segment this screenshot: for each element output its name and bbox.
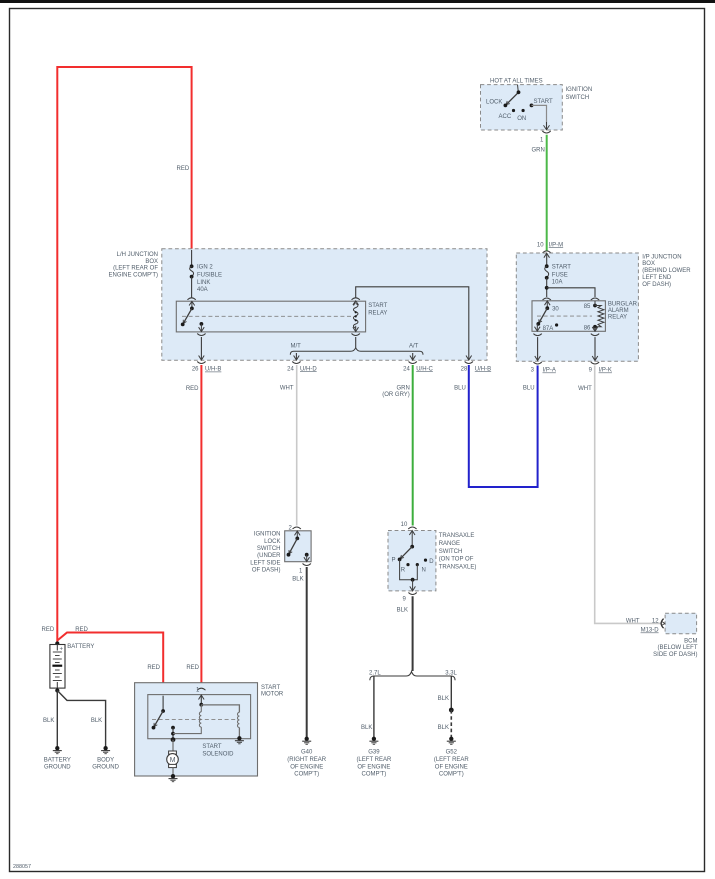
svg-text:M: M xyxy=(170,757,176,764)
wire into fusible link xyxy=(191,250,193,266)
junction coil return xyxy=(171,732,175,736)
relay 85 stub xyxy=(594,301,596,306)
wire WHT pin 24 to ignition lock switch xyxy=(296,365,298,526)
svg-text:TRANSAXLE): TRANSAXLE) xyxy=(439,564,477,570)
connector start motor pin 1 xyxy=(197,688,205,690)
svg-text:SWITCH: SWITCH xyxy=(257,546,281,552)
label G40 xyxy=(287,750,327,778)
svg-text:GROUND: GROUND xyxy=(44,765,71,771)
svg-text:LINK: LINK xyxy=(197,280,210,286)
svg-text:BLK: BLK xyxy=(438,696,449,702)
battery positive node xyxy=(55,641,59,645)
ignition switch movable contact xyxy=(504,90,521,107)
start relay switch arm xyxy=(181,301,195,326)
connector below start relay switch xyxy=(197,334,205,336)
solenoid pull-in coil xyxy=(173,695,204,734)
wire to start fuse xyxy=(546,253,548,266)
connector pin 10 I/P-M xyxy=(543,251,551,253)
body ground symbol xyxy=(101,746,110,754)
label START SOLENOID xyxy=(202,744,234,758)
svg-text:86: 86 xyxy=(584,326,591,332)
svg-text:RED: RED xyxy=(75,627,88,633)
arrow into I/P box xyxy=(544,253,550,258)
wire BLK battery to battery ground xyxy=(56,691,58,748)
svg-text:BOX: BOX xyxy=(642,261,655,267)
wire fuse to relay pin 30 xyxy=(546,278,548,297)
svg-text:I/P-A: I/P-A xyxy=(543,368,556,374)
contact N xyxy=(416,563,419,566)
wire 86 to pin 9 xyxy=(594,337,596,360)
svg-text:GRN: GRN xyxy=(532,147,545,153)
svg-text:I/P-K: I/P-K xyxy=(599,368,612,374)
wire RED battery to L/H junction box xyxy=(57,67,191,644)
svg-text:LEFT SIDE: LEFT SIDE xyxy=(250,560,280,566)
svg-text:24: 24 xyxy=(403,366,410,372)
label G39 xyxy=(356,750,392,778)
svg-text:U/H-D: U/H-D xyxy=(300,366,317,372)
output arrow to pin 9 xyxy=(410,580,416,591)
arrow at pin 26 xyxy=(199,356,205,361)
label START FUSE 10A xyxy=(552,265,571,286)
label BODY GROUND xyxy=(92,758,119,771)
wire 87A to pin 3 xyxy=(537,337,539,360)
label I/P JUNCTION BOX xyxy=(642,254,691,288)
svg-text:(BEHIND LOWER: (BEHIND LOWER xyxy=(642,268,691,274)
svg-text:IGN 2: IGN 2 xyxy=(197,265,213,271)
svg-text:12: 12 xyxy=(652,618,659,624)
svg-text:I/P JUNCTION: I/P JUNCTION xyxy=(642,254,681,260)
svg-text:ENGINE COMP'T): ENGINE COMP'T) xyxy=(109,272,158,278)
svg-text:OF DASH): OF DASH) xyxy=(642,282,671,288)
svg-text:(ON TOP OF: (ON TOP OF xyxy=(439,557,474,563)
svg-text:3.3L: 3.3L xyxy=(445,671,457,677)
wire coil bottom to M/T A/T split xyxy=(355,337,357,348)
svg-text:BLK: BLK xyxy=(397,608,408,614)
svg-text:COMP'T): COMP'T) xyxy=(294,772,319,778)
svg-text:IGNITION: IGNITION xyxy=(566,87,593,93)
contact ON xyxy=(522,109,525,112)
svg-text:WHT: WHT xyxy=(578,386,592,392)
connector ignition lock switch pin 2 xyxy=(293,527,301,529)
label START MOTOR xyxy=(261,685,284,698)
svg-text:D: D xyxy=(429,559,434,565)
connector at relay pin 85 xyxy=(591,298,599,300)
svg-text:ACC: ACC xyxy=(499,114,512,120)
ground G52 xyxy=(447,737,456,745)
wire GRN pin 24 to transaxle range switch xyxy=(412,365,414,526)
svg-text:GRN: GRN xyxy=(396,385,409,391)
svg-text:BLU: BLU xyxy=(454,385,466,391)
start motor box xyxy=(135,683,258,776)
connector below relay 86 xyxy=(591,334,599,336)
svg-text:START: START xyxy=(534,99,553,105)
svg-text:FUSIBLE: FUSIBLE xyxy=(197,273,222,279)
svg-text:ON: ON xyxy=(517,116,526,122)
motor case ground xyxy=(169,774,178,782)
connector transaxle pin 9 xyxy=(408,593,416,595)
wire GRN ignition switch to I/P box xyxy=(546,135,548,251)
relay pin 87A contact xyxy=(535,324,541,331)
ignition switch feed wire xyxy=(517,85,520,92)
svg-text:U/H-C: U/H-C xyxy=(416,366,433,372)
wire from START contact xyxy=(532,105,547,129)
wire start relay output to pin 26 xyxy=(200,337,202,360)
label IGN 2 FUSIBLE LINK 40A xyxy=(197,265,222,293)
contact ACC xyxy=(512,109,515,112)
battery ground symbol xyxy=(53,746,62,754)
svg-text:P: P xyxy=(392,558,396,564)
relay dashed link xyxy=(537,315,592,317)
connector below start relay coil xyxy=(352,334,360,336)
svg-text:RED: RED xyxy=(177,166,190,172)
svg-text:(LEFT REAR: (LEFT REAR xyxy=(356,757,392,763)
svg-text:(LEFT REAR OF: (LEFT REAR OF xyxy=(113,266,158,272)
wire fuse node to relay pin 85 xyxy=(547,288,595,297)
label BURGLAR ALARM RELAY xyxy=(608,302,638,321)
svg-text:BOX: BOX xyxy=(145,259,158,265)
svg-text:COMP'T): COMP'T) xyxy=(439,772,464,778)
relay coil 85-86 xyxy=(593,304,604,329)
wire contact to motor node xyxy=(172,728,174,740)
battery xyxy=(50,645,65,689)
svg-text:RED: RED xyxy=(186,386,199,392)
label G52 xyxy=(434,750,470,778)
svg-text:OF ENGINE: OF ENGINE xyxy=(435,764,468,770)
svg-text:HOT AT ALL TIMES: HOT AT ALL TIMES xyxy=(490,79,543,85)
BCM box xyxy=(665,613,697,634)
transaxle range switch box xyxy=(388,531,436,591)
svg-text:U/H-B: U/H-B xyxy=(205,367,221,373)
connector pin 28 U/H-B xyxy=(465,362,473,364)
start relay output contact xyxy=(199,322,205,332)
wire BLK transaxle to splice xyxy=(412,596,414,671)
svg-text:SWITCH: SWITCH xyxy=(439,549,463,555)
ignition lock switch arm xyxy=(287,531,301,557)
arrow at pin 28 xyxy=(466,356,472,361)
wire to pin 24 A/T xyxy=(412,353,414,360)
svg-text:LOCK: LOCK xyxy=(486,100,502,106)
svg-text:G39: G39 xyxy=(368,750,380,756)
svg-text:(UNDER: (UNDER xyxy=(257,553,281,559)
fusible link IGN 2 40A xyxy=(190,264,194,278)
svg-text:BLK: BLK xyxy=(292,577,303,583)
connector at start relay pin top xyxy=(187,298,195,300)
solenoid switch arm xyxy=(152,696,165,730)
svg-text:R: R xyxy=(401,567,406,573)
svg-text:SOLENOID: SOLENOID xyxy=(202,752,234,758)
connector pin 3 I/P-A xyxy=(533,362,541,364)
connector BCM pin 12 M13-D xyxy=(661,619,664,629)
junction dot G52 xyxy=(449,708,454,713)
connector pin 24 U/H-C xyxy=(409,362,417,364)
L/H junction box xyxy=(162,249,487,361)
start solenoid box xyxy=(148,695,251,739)
svg-text:START: START xyxy=(552,265,571,271)
svg-text:BLK: BLK xyxy=(438,725,449,731)
svg-text:RANGE: RANGE xyxy=(439,541,460,547)
contact D xyxy=(424,559,427,562)
svg-text:RED: RED xyxy=(42,627,55,633)
junction node below fuse xyxy=(545,286,549,290)
wire WHT I/P pin 9 to BCM xyxy=(595,366,662,624)
svg-text:BATTERY: BATTERY xyxy=(67,644,94,650)
wire BLK dashed to G52 xyxy=(450,710,452,738)
svg-text:U/H-B: U/H-B xyxy=(475,366,491,372)
svg-text:40A: 40A xyxy=(197,287,208,293)
ignition lock switch box xyxy=(285,531,311,562)
svg-text:OF DASH): OF DASH) xyxy=(252,568,281,574)
wire fusible link to start relay xyxy=(191,277,193,298)
svg-text:BODY: BODY xyxy=(97,758,114,764)
svg-text:I/P-M: I/P-M xyxy=(549,242,563,248)
starter motor M xyxy=(167,751,179,768)
connector below relay 87A xyxy=(533,334,541,336)
svg-text:G40: G40 xyxy=(301,750,313,756)
wire RED battery branch to start motor xyxy=(57,633,163,697)
svg-text:10A: 10A xyxy=(552,279,563,285)
ground G40 xyxy=(302,737,311,745)
svg-text:2.7L: 2.7L xyxy=(369,671,381,677)
contact 87 dot xyxy=(555,323,558,326)
svg-text:TRANSAXLE: TRANSAXLE xyxy=(439,533,475,539)
wire BLK ignition lock to G40 xyxy=(306,567,308,738)
svg-text:N: N xyxy=(422,567,426,573)
svg-text:M/T: M/T xyxy=(291,344,302,350)
hold-in coil ground xyxy=(235,736,244,744)
svg-text:OF ENGINE: OF ENGINE xyxy=(357,764,390,770)
svg-text:BLK: BLK xyxy=(361,725,372,731)
connector pin 26 U/H-B xyxy=(197,362,205,364)
relay pin 30 arm xyxy=(536,301,550,326)
label L/H JUNCTION BOX xyxy=(109,252,159,278)
label BATTERY GROUND xyxy=(44,758,72,771)
wire motor to case ground xyxy=(172,768,174,776)
wire coil top to pin 28 xyxy=(356,287,469,360)
svg-text:IGNITION: IGNITION xyxy=(254,532,281,538)
svg-text:BLU: BLU xyxy=(523,385,535,391)
svg-text:RELAY: RELAY xyxy=(608,314,627,320)
svg-text:FUSE: FUSE xyxy=(552,272,568,278)
svg-text:START: START xyxy=(202,744,221,750)
svg-text:ALARM: ALARM xyxy=(608,308,629,314)
label IGNITION LOCK SWITCH xyxy=(250,532,281,574)
svg-text:28: 28 xyxy=(461,366,468,372)
svg-text:OF ENGINE: OF ENGINE xyxy=(290,764,323,770)
connector above start relay coil xyxy=(352,298,360,300)
svg-text:(LEFT REAR: (LEFT REAR xyxy=(434,757,470,763)
connector transaxle range switch pin 10 xyxy=(408,527,416,529)
svg-text:BURGLAR: BURGLAR xyxy=(608,302,638,308)
contact START xyxy=(530,104,534,108)
wire RED pin 26 to start motor xyxy=(200,365,202,688)
ignition lock switch output contact xyxy=(304,553,310,562)
svg-text:RED: RED xyxy=(186,665,199,671)
svg-text:WHT: WHT xyxy=(626,618,640,624)
wire BLK splice to G39 xyxy=(373,677,375,738)
connector ignition lock switch pin 1 xyxy=(303,564,311,566)
relay 86 stub arrow xyxy=(592,327,598,332)
svg-text:BLK: BLK xyxy=(43,718,54,724)
motor node dot xyxy=(171,737,176,742)
wire to pin 24 M/T xyxy=(295,353,297,360)
svg-text:BCM: BCM xyxy=(684,638,697,644)
splice brace M/T A/T xyxy=(290,348,423,355)
label START RELAY xyxy=(368,303,387,317)
svg-text:COMP'T): COMP'T) xyxy=(361,772,386,778)
svg-text:24: 24 xyxy=(287,366,294,372)
contact R xyxy=(406,563,409,566)
svg-text:(RIGHT REAR: (RIGHT REAR xyxy=(287,757,327,763)
svg-text:10: 10 xyxy=(401,522,408,528)
svg-text:(BELOW LEFT: (BELOW LEFT xyxy=(657,645,697,651)
svg-text:85: 85 xyxy=(584,304,591,310)
svg-text:GROUND: GROUND xyxy=(92,765,119,771)
svg-text:MOTOR: MOTOR xyxy=(261,692,284,698)
connector pin 9 I/P-K xyxy=(591,362,599,364)
svg-text:LEFT END: LEFT END xyxy=(642,275,672,281)
wire node to motor xyxy=(172,740,174,751)
burglar alarm relay box xyxy=(532,301,605,332)
svg-text:BATTERY: BATTERY xyxy=(44,758,71,764)
wire BLU pin 28 to I/P pin 3 xyxy=(469,365,538,487)
ground G39 xyxy=(369,737,378,745)
svg-text:LOCK: LOCK xyxy=(264,539,280,545)
solenoid hold-in coil xyxy=(237,712,239,738)
wire BLK battery to body ground xyxy=(57,691,105,748)
start relay coil xyxy=(353,301,359,332)
svg-text:SWITCH: SWITCH xyxy=(566,95,590,101)
svg-text:A/T: A/T xyxy=(409,344,419,350)
junction dot output xyxy=(411,578,415,582)
svg-text:10: 10 xyxy=(537,242,544,248)
wire BLK splice to G52 solid xyxy=(450,677,452,711)
svg-text:RELAY: RELAY xyxy=(368,311,387,317)
transaxle switch arm xyxy=(398,531,415,562)
start fuse 10A xyxy=(545,264,549,279)
solenoid fixed contact xyxy=(171,726,175,730)
label BCM (BELOW LEFT SIDE OF DASH) xyxy=(653,638,698,658)
connector at ignition switch pin 1 xyxy=(542,131,550,133)
start relay dashed link xyxy=(182,315,352,317)
transaxle P to output wire xyxy=(400,559,418,579)
splice brace 2.7L 3.3L xyxy=(370,672,455,681)
svg-text:L/H JUNCTION: L/H JUNCTION xyxy=(117,252,158,258)
solenoid dashed link xyxy=(152,718,237,720)
connector at relay pin 30 xyxy=(543,298,551,300)
svg-text:(OR GRY): (OR GRY) xyxy=(382,392,410,398)
svg-text:WHT: WHT xyxy=(280,385,294,391)
connector pin 24 U/H-D xyxy=(292,362,300,364)
label TRANSAXLE RANGE SWITCH xyxy=(439,533,477,570)
svg-text:SIDE OF DASH): SIDE OF DASH) xyxy=(653,652,697,658)
start relay box xyxy=(176,301,365,332)
svg-text:26: 26 xyxy=(192,367,199,373)
svg-text:START: START xyxy=(368,303,387,309)
wire coil junction to hold-in coil xyxy=(201,705,239,712)
ignition switch box xyxy=(481,85,563,130)
I/P junction box xyxy=(516,253,638,361)
svg-text:RED: RED xyxy=(147,665,160,671)
svg-text:288057: 288057 xyxy=(13,864,31,870)
svg-text:START: START xyxy=(261,685,280,691)
svg-text:M13-D: M13-D xyxy=(641,628,660,634)
svg-text:BLK: BLK xyxy=(91,718,102,724)
svg-text:87A: 87A xyxy=(543,326,554,332)
arrow down at ignition switch box edge xyxy=(544,125,550,130)
battery negative node xyxy=(55,688,59,692)
svg-text:30: 30 xyxy=(552,306,559,312)
svg-text:G52: G52 xyxy=(446,750,458,756)
